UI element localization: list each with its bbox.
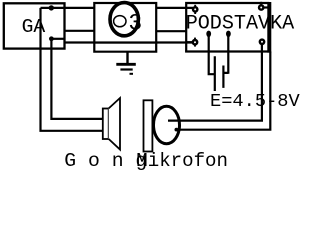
speaker cone — [109, 98, 120, 150]
svg-text:Mikrofon: Mikrofon — [136, 150, 228, 170]
microphone capsule ellipse — [154, 106, 180, 143]
pin 4 bottom-right of socket — [260, 40, 264, 44]
node junction dot on top bus — [49, 5, 54, 10]
box PODSTAVKA (socket) — [186, 3, 269, 52]
socket tray under O3 — [94, 43, 156, 52]
wire O3 to PODSTAVKA (middle) — [156, 30, 186, 32]
chip body ellipse — [110, 3, 138, 36]
box PODSTAVKA right edge (thick) — [267, 2, 271, 53]
wire ground lead — [126, 52, 128, 65]
box U1 chip O3 — [94, 3, 156, 43]
wire bottom bus (GA right edge to PODSTAVKA pin) — [65, 41, 194, 43]
wire top bus (GA to PODSTAVKA, net V+) — [41, 7, 194, 9]
wire A (top bus down through GA to speaker lower terminal) — [41, 8, 104, 131]
ground bar 2 — [120, 68, 132, 70]
speaker (gong) driver rectangle — [103, 109, 109, 140]
chip die small ellipse — [114, 16, 126, 27]
wire GA to O3 (middle) — [65, 30, 95, 32]
microphone body rectangle — [144, 100, 153, 151]
wire mic upper terminal to socket pin 4 — [168, 43, 262, 121]
pin 1 top-left of socket — [193, 5, 197, 14]
svg-text:G o n g: G o n g — [64, 150, 147, 170]
svg-text:E=4.5-8V: E=4.5-8V — [210, 90, 301, 112]
node dot at mic lower terminal — [175, 128, 179, 132]
pin 6 middle-right of socket with battery lead — [223, 31, 231, 88]
pin 2 top-right of socket — [259, 2, 268, 10]
wire B (from GA dot down to speaker upper terminal) — [51, 39, 103, 119]
pin 5 middle-left of socket with battery lead — [206, 31, 215, 91]
svg-text:GA: GA — [22, 16, 46, 38]
pin 3 bottom-left of socket — [186, 38, 197, 47]
wire mic lower terminal to socket right edge — [176, 52, 270, 130]
svg-text:PODSTAVKA: PODSTAVKA — [186, 12, 295, 35]
ground bar 3 — [130, 73, 134, 75]
wire stub from dot to GA right edge — [51, 38, 65, 40]
svg-text:3: 3 — [128, 10, 142, 36]
box PODSTAVKA bottom edge — [185, 50, 269, 52]
ground bar 1 — [116, 63, 136, 66]
node junction dot inside GA — [49, 36, 54, 41]
box GA (gong amplifier) — [4, 3, 65, 48]
